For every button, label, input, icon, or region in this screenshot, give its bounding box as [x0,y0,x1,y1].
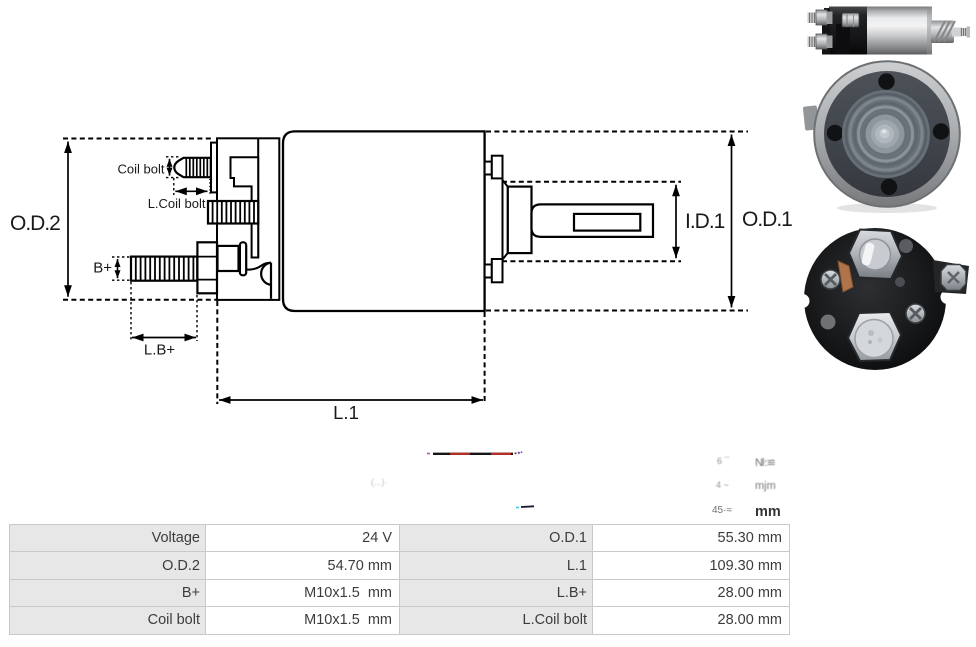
photo3 solder blobs [821,315,836,330]
coil terminal threaded stud [208,201,258,224]
photo 2: solenoid front view [803,61,961,214]
photo3 right screw [906,304,925,323]
svg-text:45·≈: 45·≈ [712,505,732,516]
svg-text:L.Coil bolt: L.Coil bolt [148,196,206,211]
internal vertical line [270,263,272,299]
dimension L.1 left dashed extension [216,301,218,404]
dimension L.B+ left dotted extension [130,282,132,341]
photo3 left screw [821,270,840,289]
bushing [508,187,532,254]
photo3 right hex bolt [941,265,966,291]
B+ hex nut [197,242,217,293]
upper terminal bump on cylinder end [485,156,503,179]
dimension I.D.1 arrow [675,185,677,259]
dimension O.D.2 bottom dashed line [63,299,217,301]
photo3 copper strip [838,261,853,292]
photo 3: solenoid rear view [796,228,970,370]
coil bolt [174,158,211,177]
dimension O.D.1 arrow [731,135,733,308]
photo3 black cap body [804,228,946,370]
dimension O.D.2 arrow [67,142,69,297]
internal divider line [257,138,259,257]
photo2 dark face annulus [824,71,950,197]
solenoid cylinder body [283,131,485,311]
photo1 small bolt head [842,13,859,27]
internal cutout [231,157,259,257]
dimension O.D.2 top dashed line [63,138,211,140]
photo1 upper stud [808,10,833,25]
photo2 center cone [866,115,905,154]
dimension L.Coil bolt dotted extension [173,178,175,195]
front housing section [217,138,279,300]
svg-text:4 ~: 4 ~ [716,480,729,490]
dimension I.D.1 bottom dashed line [502,260,681,262]
photo3 right bracket [933,260,969,294]
photo2 left tab [803,105,819,130]
svg-text:O.D.1: O.D.1 [742,208,792,231]
photo3 top hex bolt [849,230,902,280]
dimension L.1 arrow [219,399,483,401]
dimension O.D.1 top dashed line [486,131,748,133]
B+ threaded stud [131,257,197,281]
svg-text:B+: B+ [93,260,112,277]
dimension Coil bolt arrow [169,159,171,176]
photo2 bolt holes [878,73,894,89]
svg-text:Coil bolt: Coil bolt [118,162,165,177]
photo1 terminal bracket [822,21,830,55]
svg-text:(...)·: (...)· [371,477,388,487]
contact curve [246,263,271,270]
insulator bar [240,242,246,275]
svg-text:I.D.1: I.D.1 [685,210,725,233]
coil bolt entry thread ticks [209,180,211,194]
photo1 plunger and spring [931,21,970,44]
dimension L.B+ arrow [132,337,196,339]
dimension I.D.1 top dashed line [502,181,681,183]
svg-text:6 ¯: 6 ¯ [717,456,731,466]
artifact faint row 3 [712,504,781,520]
end plate [503,180,508,260]
semicircular notch [261,263,271,285]
shaft slot [574,214,640,231]
mounting flange strip [211,143,217,193]
dimension B+ dotted extensions [112,256,131,258]
svg-text:O.D.2: O.D.2 [10,212,60,235]
dimension O.D.1 bottom dashed line [486,310,748,312]
photo 1: solenoid side view [808,7,971,55]
artifact smudge line [427,451,522,454]
photo2 machined disc [842,90,930,178]
lower terminal bump on cylinder end [485,259,503,282]
svg-text:mjm: mjm [755,480,776,492]
svg-text:L.1: L.1 [333,402,359,423]
photo1 lower stud [808,34,833,49]
photo2 drop shadow [837,203,937,213]
table: specifications [9,524,790,635]
artifact faint row 2 [716,480,776,492]
contact washer block [218,246,239,271]
svg-text:Nŀ:≌: Nŀ:≌ [755,457,776,469]
plunger shaft [532,204,654,237]
svg-text:mm: mm [755,504,781,520]
photo2 outer rim ring [814,61,961,208]
photo3 bottom hex bolt [848,312,901,361]
dimension B+ arrow [117,259,119,278]
dimension L.1 right dashed extension [484,312,486,404]
dimension L.Coil bolt arrow [175,190,207,192]
dimension Coil bolt dotted extensions [166,156,181,158]
svg-text:L.B+: L.B+ [144,342,176,359]
artifact faint row 1 [717,456,776,469]
photo1 cylinder barrel [866,7,932,55]
photo1 black rear housing [829,7,867,55]
artifact dash [516,506,534,507]
dimension L.B+ right dotted extension [196,295,198,341]
